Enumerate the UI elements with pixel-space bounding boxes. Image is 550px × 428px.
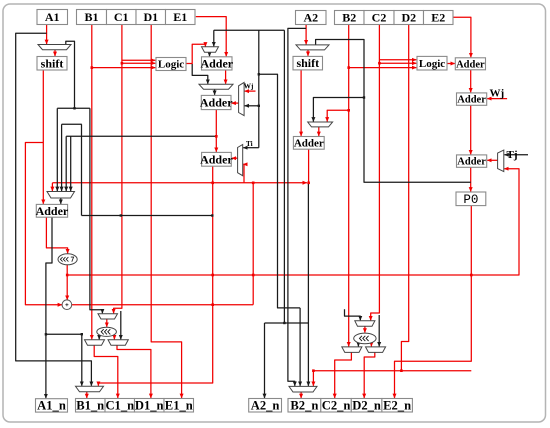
svg-text:Adder: Adder — [200, 96, 233, 110]
svg-text:B2: B2 — [342, 11, 356, 25]
svg-text:Adder: Adder — [36, 204, 69, 218]
svg-text:D2_n: D2_n — [352, 399, 381, 413]
svg-text:C1: C1 — [114, 10, 129, 24]
svg-text:C1_n: C1_n — [105, 399, 134, 413]
svg-text:Adder: Adder — [200, 152, 233, 166]
svg-text:E1_n: E1_n — [165, 399, 193, 413]
svg-text:Logic: Logic — [419, 58, 445, 70]
svg-text:Adder: Adder — [294, 138, 324, 150]
svg-text:B1: B1 — [84, 10, 98, 24]
svg-text:D2: D2 — [401, 11, 416, 25]
svg-text:E2: E2 — [431, 11, 445, 25]
svg-text:Adder: Adder — [200, 57, 233, 71]
svg-text:shift: shift — [296, 56, 319, 70]
svg-text:Wj: Wj — [244, 83, 254, 91]
svg-text:E2_n: E2_n — [383, 399, 411, 413]
svg-text:Adder: Adder — [457, 157, 486, 168]
svg-text:Wj: Wj — [490, 88, 505, 100]
svg-text:A2: A2 — [303, 11, 318, 25]
svg-text:P0: P0 — [463, 193, 478, 207]
svg-text:Adder: Adder — [457, 95, 486, 106]
svg-text:E1: E1 — [173, 10, 187, 24]
svg-text:D1: D1 — [143, 10, 158, 24]
svg-text:Ti: Ti — [246, 140, 253, 148]
svg-text:C2: C2 — [372, 11, 387, 25]
svg-text:D1_n: D1_n — [135, 399, 164, 413]
svg-text:Adder: Adder — [456, 59, 485, 70]
svg-text:C2_n: C2_n — [322, 399, 351, 413]
svg-text:Tj: Tj — [507, 149, 518, 161]
svg-text:A1: A1 — [45, 10, 60, 24]
svg-text:A2_n: A2_n — [251, 399, 280, 413]
svg-text:B2_n: B2_n — [290, 399, 318, 413]
svg-text:B1_n: B1_n — [76, 399, 104, 413]
svg-text:Logic: Logic — [158, 59, 184, 71]
svg-text:A1_n: A1_n — [37, 399, 66, 413]
svg-text:shift: shift — [41, 56, 64, 70]
